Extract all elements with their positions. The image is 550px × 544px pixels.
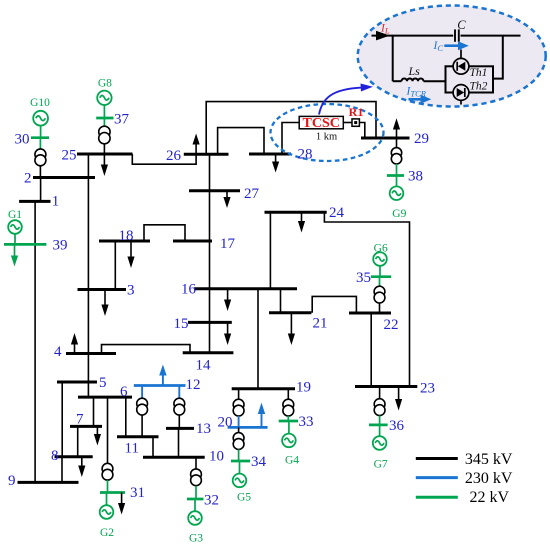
wire step 25-26 (132, 154, 196, 164)
transformer 30-2 (35, 138, 46, 178)
bus 4 (66, 352, 116, 355)
bus 34 (22 kV) (231, 460, 250, 463)
load arrow bus 4 (up) (71, 333, 78, 354)
svg-text:2: 2 (24, 171, 32, 187)
svg-text:23: 23 (420, 381, 435, 397)
wire line 22-23 (370, 313, 372, 387)
svg-text:16: 16 (181, 282, 197, 298)
legend 345 kV line (416, 457, 458, 460)
load arrow bus 15 (down) (224, 322, 231, 345)
load arrow bus 39 (green, down) (11, 244, 18, 266)
svg-text:38: 38 (408, 169, 423, 185)
bus 28 (249, 153, 291, 156)
svg-text:19: 19 (296, 380, 311, 396)
svg-text:Ls: Ls (408, 64, 421, 78)
bus 11 (117, 435, 159, 438)
bus 30 (22 kV) (31, 136, 49, 139)
load arrow bus 25 (down) (101, 154, 108, 176)
svg-text:6: 6 (120, 384, 128, 400)
wire line 7-8 (77, 426, 79, 456)
inset: TCR current arrow (blue) (409, 95, 432, 104)
TCSC box (299, 116, 343, 131)
transformer 19-33 (283, 389, 294, 421)
thyristor Th2 (453, 85, 469, 105)
svg-text:31: 31 (130, 485, 145, 501)
bus 7 (70, 425, 102, 428)
svg-text:9: 9 (8, 473, 16, 489)
bus 10 (143, 456, 205, 459)
svg-text:G1: G1 (8, 209, 22, 221)
bus 32 (22 kV) (187, 498, 204, 501)
wire line 6-7 (93, 397, 95, 426)
wire step 26-28 (218, 128, 264, 155)
bus 33 (22 kV) (279, 420, 298, 423)
svg-text:1: 1 (52, 194, 60, 210)
svg-text:18: 18 (119, 228, 134, 244)
svg-text:7: 7 (76, 412, 84, 428)
svg-text:Th1: Th1 (470, 67, 488, 79)
breaker R1 (349, 105, 364, 126)
svg-text:34: 34 (251, 454, 267, 470)
wire R1 to bus 29 (360, 123, 365, 139)
svg-text:G3: G3 (189, 533, 203, 544)
bus 20 (230 kV) (228, 426, 268, 429)
svg-text:35: 35 (356, 270, 371, 286)
svg-text:39: 39 (53, 238, 68, 254)
svg-text:17: 17 (220, 236, 236, 252)
wire chain 26-27-17-16-15-14 (mid long vertical) (209, 154, 211, 352)
transformer 22-35 (374, 277, 385, 313)
bus 5 (57, 381, 97, 384)
svg-text:Th2: Th2 (470, 81, 488, 93)
wire line 26-29 (top loop) (206, 102, 376, 155)
bus 36 (22 kV) (369, 424, 388, 427)
svg-text:32: 32 (204, 493, 219, 509)
generator G9 (390, 176, 404, 201)
wire chain 25-2-3-4-5-6 (long vertical) (87, 154, 89, 397)
svg-text:22: 22 (384, 317, 399, 333)
wire step 18-17 (144, 225, 185, 241)
legend 22 kV line (416, 496, 458, 499)
svg-text:G2: G2 (100, 527, 114, 539)
bus 23 (355, 385, 417, 388)
wire step 21-22 (312, 296, 356, 313)
TCSC dashed ellipse (zoom region) (271, 104, 384, 161)
load arrow bus 3 (down) (101, 290, 108, 317)
wire bus 28 to TCSC (282, 123, 299, 155)
callout arrow from TCSC to inset (319, 84, 373, 115)
bus 8 (55, 455, 93, 458)
load arrow bus 26 (up) (193, 134, 200, 155)
bus 37 (22 kV) (96, 117, 113, 120)
bus 38 (22 kV) (387, 174, 404, 177)
bus 15 (188, 321, 232, 324)
load arrow bus 21 (down) (288, 313, 295, 345)
inductor Ls (402, 78, 424, 81)
transformer 19-20 (233, 389, 244, 428)
svg-text:G9: G9 (392, 208, 406, 220)
load arrow bus 23 (down) (395, 387, 402, 411)
generator G2 (100, 493, 114, 519)
load arrow bus 29 (up) (393, 118, 400, 138)
load arrow bus 24 (down) (298, 212, 305, 232)
bus 25 (77, 153, 133, 156)
bus 26 (184, 153, 229, 156)
wire step 24-23 (324, 212, 409, 386)
svg-text:5: 5 (99, 375, 107, 391)
bus 12 (230 kV) (134, 384, 186, 387)
wire line 16-21 (280, 289, 282, 313)
wire line 3-18 (114, 241, 116, 290)
svg-text:G4: G4 (285, 455, 299, 467)
bus 31 (22 kV) (100, 491, 125, 494)
svg-text:G10: G10 (30, 97, 50, 109)
transformer 12-11 (137, 386, 148, 437)
load arrow bus 31 (down) (118, 493, 125, 515)
load arrow bus 12 (blue, up) (159, 365, 166, 386)
transformer 6-31 (102, 463, 113, 492)
load arrow bus 7 (down) (94, 426, 101, 445)
wire line 5-8 (61, 382, 63, 457)
generator G8 (97, 91, 111, 118)
inset: wire inductor to thyristor block (424, 80, 446, 82)
svg-text:G6: G6 (374, 243, 388, 255)
bus 6 (78, 396, 132, 399)
transformer 29-38 (391, 138, 401, 176)
transformer 25-37 (99, 118, 110, 154)
load arrow bus 20 (blue, up) (258, 403, 265, 428)
wire step 4-14 (102, 345, 191, 354)
inset: line current arrow (376, 31, 390, 41)
svg-text:30: 30 (15, 132, 30, 148)
inset: right vertical wire (493, 36, 503, 79)
svg-text:14: 14 (196, 358, 212, 374)
transformer 20-34 (233, 427, 244, 461)
generator G6 (373, 252, 387, 277)
load arrow bus 27 (down) (223, 191, 230, 208)
bus 29 (361, 137, 410, 140)
bus 9 (18, 481, 79, 484)
wire line 1-2 (40, 178, 42, 202)
svg-text:11: 11 (125, 441, 139, 457)
bus 35 (22 kV) (371, 275, 391, 278)
bus 18 (99, 240, 150, 243)
TCSC detail inset ellipse (358, 6, 546, 107)
generator G5 (233, 461, 247, 487)
load arrow bus 16 (down) (224, 289, 231, 311)
svg-text:TCSC: TCSC (303, 116, 340, 131)
bus 21 (269, 311, 311, 314)
svg-text:22 kV: 22 kV (470, 489, 510, 506)
bus 13 (166, 427, 194, 430)
svg-text:27: 27 (244, 186, 260, 202)
inset: thyristor block frame (446, 66, 494, 92)
svg-text:24: 24 (329, 205, 345, 221)
load arrow bus 28 (down) (272, 154, 279, 173)
bus 1 (19, 200, 50, 203)
svg-text:12: 12 (186, 377, 201, 393)
generator G3 (188, 499, 202, 525)
svg-text:36: 36 (389, 418, 405, 434)
wire line 11-10 (152, 437, 154, 457)
svg-text:G8: G8 (98, 78, 112, 90)
inset: capacitor C plates (455, 29, 459, 41)
svg-text:20: 20 (218, 415, 233, 431)
svg-text:4: 4 (54, 344, 62, 360)
wire TCSC to R1 (343, 122, 352, 124)
svg-text:230 kV: 230 kV (465, 470, 513, 487)
bus 27 (189, 189, 240, 192)
svg-text:R1: R1 (349, 105, 364, 119)
bus 19 (232, 387, 295, 390)
wire line 6 to transformer of bus 31 (107, 397, 109, 463)
svg-text:C: C (457, 18, 466, 32)
svg-text:25: 25 (62, 148, 77, 164)
bus 16 (194, 287, 297, 290)
svg-text:10: 10 (209, 449, 224, 465)
svg-text:21: 21 (313, 316, 328, 332)
svg-text:37: 37 (114, 112, 130, 128)
svg-text:26: 26 (166, 148, 182, 164)
inset: lower wire to inductor (393, 80, 402, 82)
wire line 24-16 (269, 212, 271, 288)
generator G4 (282, 421, 296, 447)
wire line 8-9 (61, 457, 63, 483)
load arrow bus 8 (down) (78, 457, 85, 477)
inset: top wire (line 28-29 with capacitor) (372, 35, 521, 37)
svg-text:15: 15 (174, 316, 189, 332)
transformer 23-36 (374, 387, 385, 425)
bus 24 (265, 211, 327, 214)
svg-text:8: 8 (51, 448, 59, 464)
svg-text:G5: G5 (237, 492, 251, 504)
wire line 16-19 (257, 289, 259, 389)
bus 2 (33, 176, 95, 179)
bus 3 (78, 288, 127, 291)
wire line 1-39-9 (left long vertical) (34, 201, 36, 482)
svg-text:33: 33 (299, 414, 314, 430)
generator G1 (8, 220, 22, 244)
wire line 6-11 (125, 397, 127, 437)
svg-text:13: 13 (196, 421, 211, 437)
svg-text:345 kV: 345 kV (465, 451, 513, 468)
generator G7 (373, 425, 387, 450)
bus 39 (22 kV) (4, 243, 46, 246)
svg-text:29: 29 (414, 131, 429, 147)
generator G10 (33, 111, 48, 138)
bus 22 (349, 312, 391, 315)
transformer 10-32 (191, 457, 202, 499)
bus 17 (173, 240, 212, 243)
inset: left vertical wire (392, 36, 394, 82)
svg-text:3: 3 (127, 283, 135, 299)
legend 230 kV line (416, 476, 458, 479)
svg-text:G7: G7 (374, 459, 388, 471)
svg-text:1 km: 1 km (316, 132, 337, 143)
thyristor Th1 (453, 50, 469, 75)
wire line 13-10 (178, 428, 180, 457)
load arrow bus 18 (down) (127, 241, 134, 268)
inset: capacitor current arrow (blue) (444, 41, 469, 50)
svg-text:28: 28 (298, 147, 313, 163)
transformer 12-13 (174, 386, 185, 429)
bus 14 (183, 351, 234, 354)
